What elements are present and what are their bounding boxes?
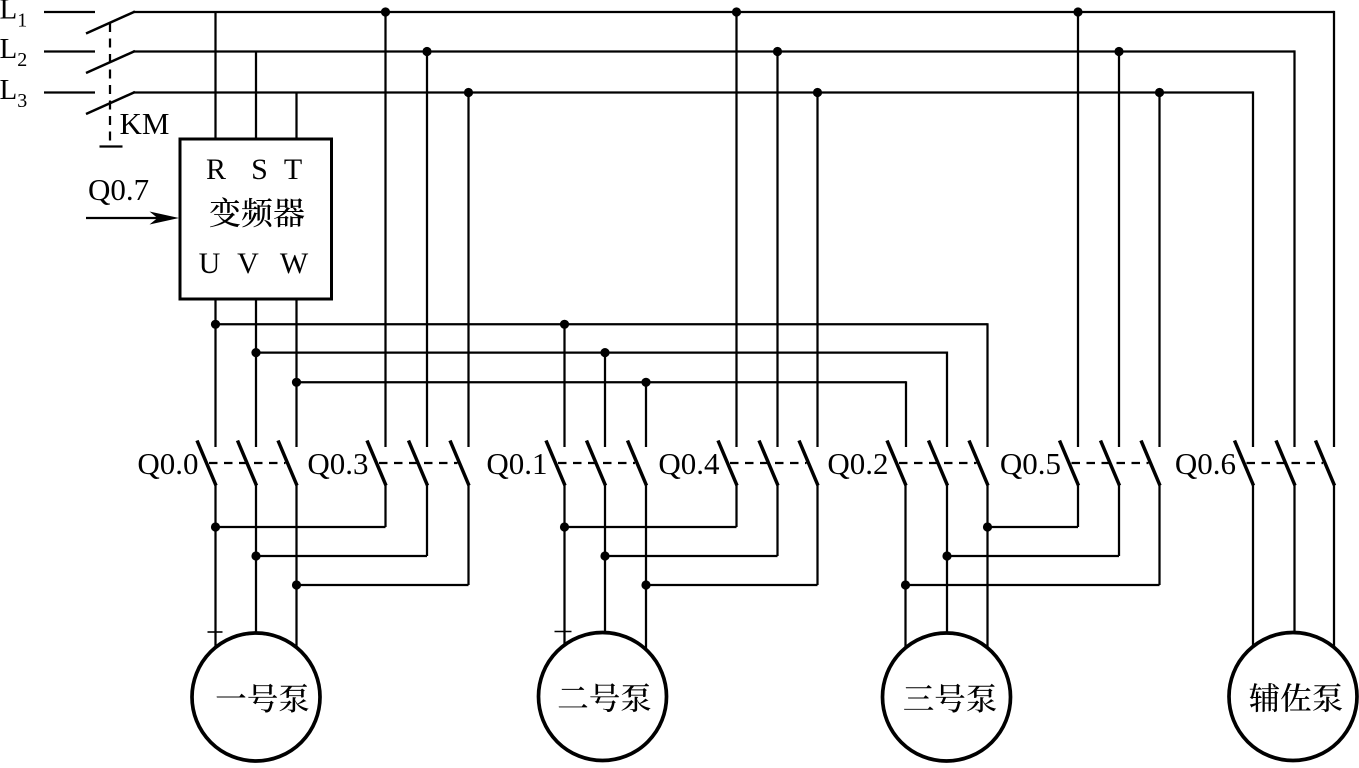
svg-text:W: W [280, 247, 309, 280]
svg-text:Q0.5: Q0.5 [1000, 446, 1061, 481]
svg-text:Q0.1: Q0.1 [486, 446, 547, 481]
svg-text:Q0.0: Q0.0 [137, 446, 198, 481]
svg-text:S: S [251, 153, 268, 186]
svg-text:Q0.7: Q0.7 [88, 172, 149, 207]
svg-text:Q0.4: Q0.4 [658, 446, 720, 481]
svg-text:KM: KM [120, 106, 170, 141]
svg-text:U: U [199, 247, 221, 280]
svg-text:Q0.6: Q0.6 [1175, 446, 1236, 481]
svg-text:Q0.3: Q0.3 [307, 446, 368, 481]
svg-text:V: V [237, 247, 259, 280]
svg-text:T: T [284, 153, 302, 186]
svg-text:R: R [206, 153, 226, 186]
svg-text:Q0.2: Q0.2 [827, 446, 888, 481]
